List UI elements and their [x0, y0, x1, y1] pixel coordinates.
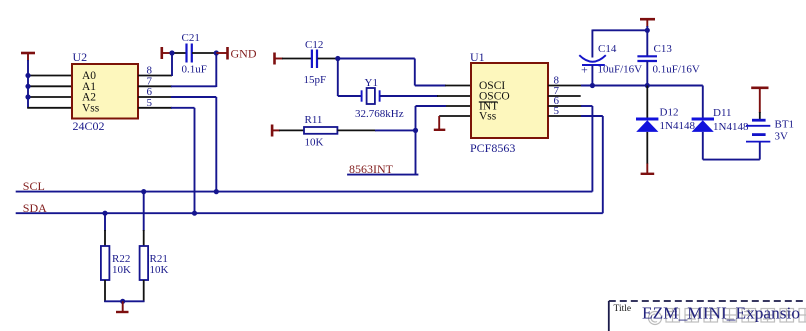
- svg-text:1N4148: 1N4148: [713, 121, 749, 133]
- wire U2 pin 6: [138, 96, 216, 98]
- capacitor C12: [282, 39, 338, 86]
- junction top rail: [645, 28, 650, 33]
- junction A2: [25, 94, 30, 99]
- GND power port right of C21: [216, 47, 257, 61]
- junction C21 right: [214, 50, 219, 55]
- wire U2 pin 7: [138, 85, 216, 87]
- wire pin8 to C21: [171, 53, 173, 76]
- svg-text:D12: D12: [660, 107, 679, 119]
- capacitor C14 electrolytic: [579, 30, 642, 86]
- svg-text:8563INT: 8563INT: [349, 162, 394, 176]
- svg-text:BT1: BT1: [775, 119, 795, 131]
- svg-text:PCF8563: PCF8563: [470, 141, 515, 155]
- wire pin5 down to SDA: [194, 108, 196, 213]
- svg-text:U2: U2: [73, 50, 88, 64]
- svg-text:10K: 10K: [150, 264, 169, 276]
- svg-text:Title: Title: [614, 304, 632, 314]
- junction rail C13: [645, 83, 650, 88]
- svg-text:10K: 10K: [112, 264, 131, 276]
- svg-text:SCL: SCL: [23, 179, 45, 193]
- wire INT pin to 8563INT: [347, 106, 471, 175]
- power bar above BT1: [751, 88, 768, 113]
- wire pin7 to C21 right: [215, 53, 217, 87]
- wire R22 bottom: [104, 280, 106, 302]
- svg-text:EZM_MINI_Expansio: EZM_MINI_Expansio: [642, 304, 800, 323]
- svg-text:C14: C14: [598, 43, 617, 55]
- capacitor C21: [172, 32, 216, 76]
- diode D11: [692, 86, 749, 134]
- svg-text:1N4148: 1N4148: [660, 120, 696, 132]
- resistor R11: [279, 114, 416, 149]
- svg-text:C21: C21: [182, 32, 200, 44]
- ground below U1 Vss: [434, 116, 446, 130]
- wire U2 pin Vss: [27, 107, 72, 109]
- svg-text:Vss: Vss: [82, 103, 100, 115]
- wire U1 pin 8: [548, 85, 582, 87]
- diode D12: [636, 86, 695, 133]
- power bar symbol left of U2: [21, 53, 35, 61]
- svg-text:10uF/16V: 10uF/16V: [598, 64, 643, 76]
- junction A1: [25, 84, 30, 89]
- wire joining resistor bottoms: [104, 300, 144, 302]
- svg-text:+: +: [581, 63, 588, 77]
- title block border: [609, 301, 806, 331]
- wire R22 up to SDA: [104, 213, 106, 246]
- wire D12 anode down: [646, 132, 648, 164]
- junction SCL-U2pin6: [214, 189, 219, 194]
- wire U2 pin 8: [138, 75, 172, 77]
- wire U2 pin A2: [27, 96, 72, 98]
- ground below D12: [641, 164, 655, 174]
- svg-text:15pF: 15pF: [304, 74, 327, 86]
- wire C12 down to crystal: [338, 59, 362, 97]
- crystal Y1: [355, 77, 404, 120]
- wire crystal to OSCO: [380, 95, 471, 97]
- svg-text:R11: R11: [305, 114, 323, 126]
- chip U1 PCF8563: [470, 50, 560, 155]
- resistor R21: [140, 246, 169, 280]
- wire D11 anode to battery minus: [703, 132, 760, 160]
- junction SDA-R22: [102, 211, 107, 216]
- wire Vss pin of U1: [439, 115, 471, 117]
- svg-text:SDA: SDA: [23, 201, 47, 215]
- wire U2 pin A1: [27, 85, 72, 87]
- net SDA wire: [16, 212, 603, 214]
- watermark glyphs: [649, 309, 806, 325]
- power bar left of R11: [272, 125, 280, 137]
- power bar above C13: [640, 19, 655, 27]
- wire U1 pin 7 stub: [548, 95, 581, 97]
- svg-text:D11: D11: [713, 107, 732, 119]
- wire U2 address bus vertical: [27, 60, 29, 108]
- svg-text:C12: C12: [305, 39, 323, 51]
- svg-text:C13: C13: [654, 43, 673, 55]
- power bar left of C21: [162, 47, 172, 59]
- junction rail C14: [590, 83, 595, 88]
- power bar left of C12: [275, 53, 284, 65]
- junction resistor bottoms: [120, 299, 125, 304]
- chip U2 24C02: [72, 50, 153, 133]
- wire VCC rail: [581, 85, 703, 87]
- svg-text:Vss: Vss: [479, 111, 497, 123]
- wire U2 pin A0: [27, 75, 72, 77]
- junction R11 right: [413, 128, 418, 133]
- junction SDA-U2pin5: [192, 211, 197, 216]
- junction C21 left: [169, 50, 174, 55]
- resistor R22: [101, 246, 131, 280]
- wire pin6 down to SCL: [215, 97, 217, 192]
- svg-text:0.1uF/16V: 0.1uF/16V: [653, 64, 700, 76]
- wire U2 pin 5: [138, 107, 195, 109]
- junction SCL-R21: [141, 189, 146, 194]
- capacitor C13: [637, 30, 700, 85]
- svg-text:24C02: 24C02: [73, 119, 105, 133]
- svg-text:U1: U1: [470, 50, 485, 64]
- wire C12 to OSCI: [338, 59, 471, 86]
- battery BT1: [746, 112, 794, 143]
- svg-text:32.768kHz: 32.768kHz: [355, 108, 404, 120]
- ground below R22 R21: [116, 301, 129, 312]
- svg-text:Y1: Y1: [365, 77, 378, 89]
- svg-text:3V: 3V: [775, 131, 789, 143]
- wire U1 pin 6: [548, 106, 592, 192]
- wire R21 up to SCL: [143, 192, 145, 246]
- junction A0: [25, 73, 30, 78]
- svg-text:GND: GND: [231, 47, 257, 61]
- svg-text:0.1uF: 0.1uF: [182, 64, 207, 76]
- net SCL wire: [16, 191, 593, 193]
- junction C12 right: [335, 56, 340, 61]
- wire U1 pin 5: [548, 116, 603, 213]
- wire top rail C14-C13: [592, 26, 647, 30]
- wire R21 bottom: [143, 280, 145, 302]
- svg-text:10K: 10K: [305, 137, 324, 149]
